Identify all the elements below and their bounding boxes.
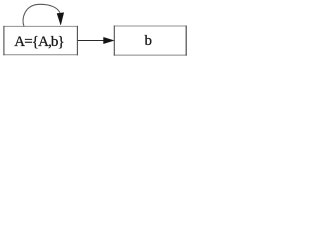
node A box bottom edge: [3, 54, 78, 56]
transition arrowhead: [104, 37, 114, 43]
svg-text:A={A,b}: A={A,b}: [14, 34, 65, 50]
node A box right edge: [76, 26, 78, 55]
transition edge wire A to b: [78, 40, 105, 42]
node b box top edge: [114, 25, 187, 27]
node A box left edge: [3, 26, 5, 55]
node b box bottom edge: [114, 54, 187, 56]
svg-text:b: b: [144, 33, 152, 49]
node b box right edge: [185, 26, 187, 56]
node A box top edge: [3, 25, 78, 27]
node b box left edge: [113, 26, 115, 56]
self-loop edge wire: [23, 4, 60, 26]
self-loop arrowhead: [57, 13, 64, 25]
